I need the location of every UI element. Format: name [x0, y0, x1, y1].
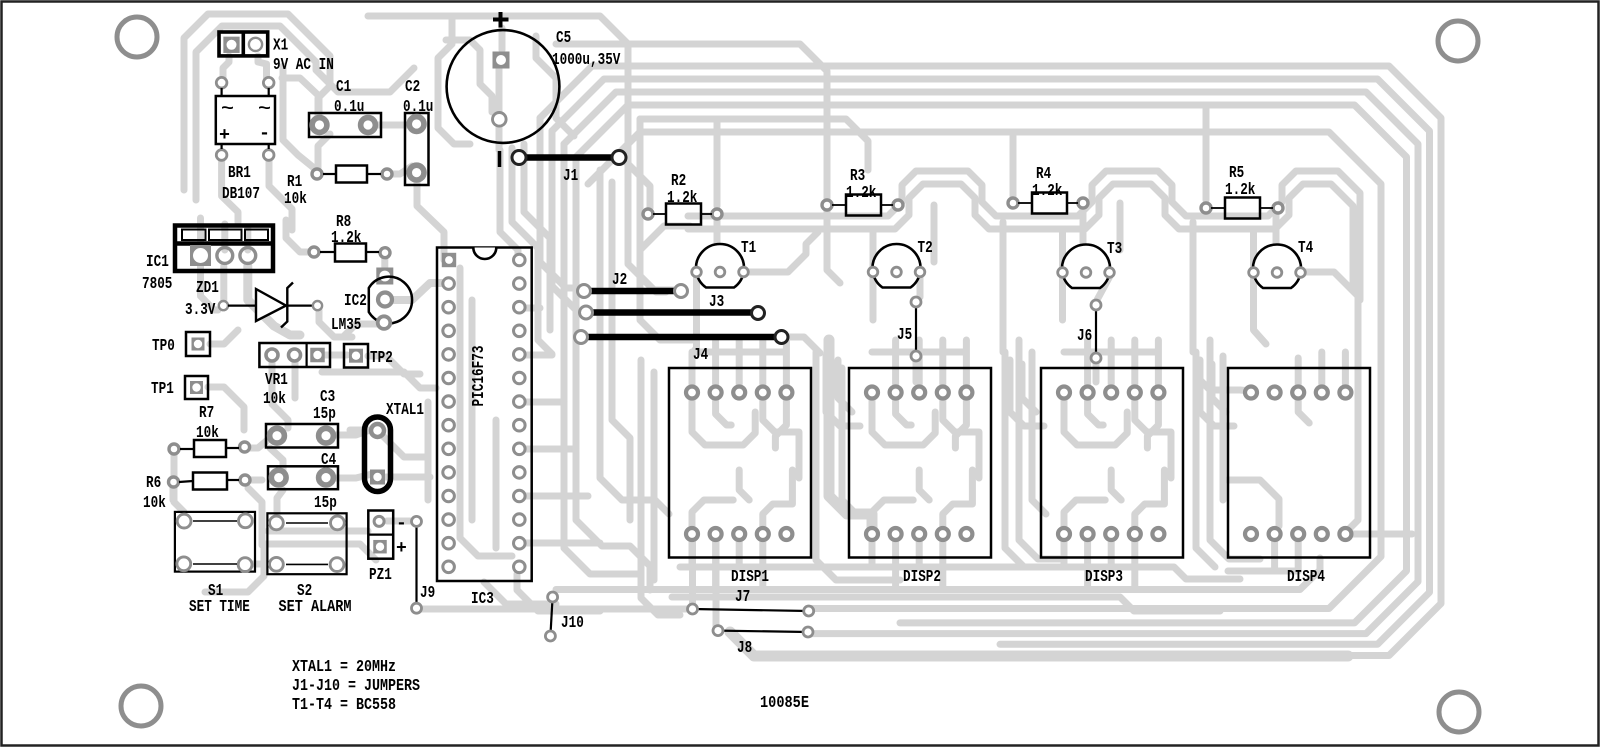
resistor R7	[169, 404, 250, 457]
svg-text:1000u,35V: 1000u,35V	[552, 51, 621, 70]
svg-text:J8: J8	[737, 639, 752, 658]
svg-text:0.1u: 0.1u	[334, 98, 364, 117]
pushbutton S1	[175, 512, 255, 617]
wire J5 stub	[913, 360, 920, 382]
svg-text:1.2k: 1.2k	[846, 184, 876, 203]
wire inside PIC b	[469, 300, 476, 520]
wire IC3 bottom run b	[517, 574, 600, 611]
wire band bus 1	[640, 226, 692, 340]
transistor T3	[1058, 240, 1123, 288]
wire S1 S2 link	[243, 561, 277, 568]
jumper J10	[545, 592, 583, 641]
svg-text:PIC16F73: PIC16F73	[470, 346, 489, 407]
wire left border vertical	[184, 14, 330, 190]
wire DISP1 pad2 to J8	[713, 540, 720, 626]
wire R8 right to PIC	[381, 256, 388, 268]
wire top run y44 to R3	[556, 44, 827, 198]
wire bundle DISP1-2 a	[816, 352, 900, 580]
resistor R5	[1201, 164, 1283, 219]
wire J9 bottom run	[421, 606, 688, 613]
wire inside C5 left	[446, 40, 492, 112]
wire R8 left lead	[286, 220, 314, 252]
svg-text:IC3: IC3	[471, 590, 494, 609]
jumper J3	[580, 293, 765, 320]
wire wide bottom power	[730, 632, 1348, 656]
jumper J2	[578, 271, 688, 298]
wire IC3 bottom run a	[484, 582, 556, 604]
wire drops from DISP1 bottom pads	[692, 541, 763, 590]
svg-text:ZD1: ZD1	[196, 279, 219, 298]
wire IC2 bottom lead	[344, 324, 378, 336]
svg-text:~: ~	[221, 100, 234, 119]
wire T2 pads	[873, 232, 920, 320]
wire IC1 pad3 down	[248, 266, 300, 335]
svg-text:DISP4: DISP4	[1287, 568, 1325, 587]
wire J1 to R2	[621, 157, 650, 208]
svg-text:IC1: IC1	[146, 253, 169, 272]
wire R4 left feed	[1010, 136, 1017, 196]
wire vertical to J2 right	[628, 186, 674, 290]
svg-text:1.2k: 1.2k	[331, 229, 361, 248]
wire XTAL bottom lead	[386, 474, 430, 481]
wire gap staircase 2	[1010, 360, 1044, 426]
svg-text:R6: R6	[146, 474, 161, 493]
svg-text:~: ~	[258, 100, 271, 119]
wire bundle DISP2-3 c	[1032, 352, 1046, 514]
wire behind S2 b	[262, 544, 376, 560]
svg-text:1.2k: 1.2k	[1225, 181, 1255, 200]
svg-text:J3: J3	[709, 293, 724, 312]
trimmer VR1	[259, 343, 330, 409]
wire inside DISP3 upper	[1064, 400, 1171, 478]
wire XTAL top lead	[350, 430, 428, 457]
wire R7 left down	[174, 454, 184, 512]
svg-text:T1-T4 = BC558: T1-T4 = BC558	[292, 696, 396, 715]
svg-text:J1-J10 = JUMPERS: J1-J10 = JUMPERS	[292, 677, 420, 696]
voltage regulator IC1	[142, 226, 273, 295]
wire gap feed 3-4	[1190, 222, 1197, 352]
wire C4 right to XTAL	[326, 474, 372, 478]
wire gap staircase 3	[1200, 360, 1234, 426]
wire J4 right link	[785, 337, 820, 353]
svg-text:J7: J7	[735, 588, 750, 607]
wire gap feed 2-3	[1000, 222, 1007, 352]
svg-text:1.2k: 1.2k	[1032, 182, 1062, 201]
transistor T2	[868, 239, 933, 288]
wire T1 left pad down	[692, 277, 697, 384]
wire inside DISP4	[1228, 400, 1412, 534]
wire top edge run y16	[368, 16, 628, 186]
wire loop 2 (top y79)	[552, 79, 1430, 644]
wire inside DISP2 lower	[872, 470, 972, 527]
wire C5 top pad lead	[499, 28, 502, 112]
svg-text:SET ALARM: SET ALARM	[279, 598, 352, 617]
crystal XTAL1	[365, 401, 425, 492]
wire R3 drop	[827, 205, 934, 283]
wire VR1 pad2 down	[292, 360, 299, 398]
wire inside PIC a	[460, 268, 512, 556]
svg-text:VR1: VR1	[265, 371, 288, 390]
svg-text:DB107: DB107	[222, 185, 260, 204]
wire bottom run a	[680, 567, 1240, 579]
piezo PZ1	[368, 511, 407, 586]
capacitor C2	[403, 78, 433, 185]
svg-text:T2: T2	[918, 239, 933, 258]
wire C1 to R1	[318, 134, 330, 168]
jumper J8	[713, 626, 813, 658]
wire IC1 pad2 down to ZD1	[220, 266, 227, 300]
wire TP2 to PIC b	[368, 356, 420, 374]
svg-text:J4: J4	[693, 346, 708, 365]
svg-text:T1: T1	[741, 239, 756, 258]
svg-text:DISP1: DISP1	[731, 568, 769, 587]
svg-text:BR1: BR1	[228, 164, 251, 183]
wire band meander upper	[688, 171, 1360, 300]
svg-text:10k: 10k	[143, 494, 166, 513]
svg-text:+: +	[396, 539, 407, 559]
wire VR1 to PIC a	[322, 372, 436, 388]
wire R2 right feed	[714, 122, 721, 206]
svg-text:-: -	[396, 514, 407, 534]
wire fan v6 long	[612, 182, 630, 520]
svg-text:TP1: TP1	[151, 380, 174, 399]
wire around C5 left	[438, 16, 470, 144]
wire drops into DISP3 top pads	[1064, 340, 1158, 384]
wire T1 right pad	[744, 232, 819, 272]
wire drops from DISP4 bottom pads	[1228, 541, 1298, 571]
wire between S1 S2 v	[248, 488, 262, 545]
wire C4 left up	[270, 448, 283, 472]
wire inside DISP1 lower	[692, 470, 792, 527]
wire fan v2 to J3	[552, 131, 586, 312]
jumper J9	[412, 516, 436, 613]
temperature sensor IC2	[331, 268, 412, 336]
wire BR1 left pad down	[222, 161, 238, 222]
resistor R3	[822, 167, 903, 216]
wire bundle DISP3-4 b	[1210, 340, 1260, 559]
wire X1 to BR1 left	[223, 56, 229, 78]
wire inside PIC c	[493, 420, 500, 548]
wire PIC right stubs	[517, 308, 600, 543]
capacitor C1	[309, 78, 381, 137]
wire bundle DISP2-3 b	[1019, 340, 1060, 559]
wire PZ1 to J9	[387, 518, 410, 525]
resistor R1	[284, 166, 392, 210]
wire loop 5 (top y132)	[588, 132, 1381, 609]
wire behind S1 c	[205, 545, 264, 592]
jumper J6	[1077, 300, 1101, 363]
svg-text:10k: 10k	[284, 190, 307, 209]
wire drops into DISP2 top pads	[872, 340, 966, 384]
test point TP0	[152, 332, 210, 356]
svg-text:IC2: IC2	[344, 292, 367, 311]
wire verticals through IC1	[201, 218, 248, 250]
wire T3 pads	[1063, 232, 1110, 320]
wire C3 right to XTAL	[326, 430, 370, 435]
svg-text:15p: 15p	[313, 405, 336, 424]
wire R7 right to C3	[245, 438, 270, 448]
wire drops into DISP1 top pads	[692, 340, 786, 384]
svg-text:TP2: TP2	[370, 349, 393, 368]
wire inside DISP2 upper	[872, 400, 979, 478]
test point TP2	[344, 344, 393, 368]
svg-text:+: +	[219, 126, 230, 146]
svg-text:0.1u: 0.1u	[403, 98, 433, 117]
wire inside DISP1 upper	[692, 400, 799, 478]
wire C5 v1 to PIC	[500, 150, 518, 258]
svg-text:J2: J2	[612, 271, 627, 290]
wire run y119	[640, 119, 868, 170]
legend T1-T4 = BC558	[292, 696, 396, 715]
svg-text:J5: J5	[897, 326, 912, 345]
mounting hole bottom-right	[1439, 692, 1479, 732]
wire DISP1 pad1 to J7	[689, 540, 696, 604]
wire bundle left of DISP1 b	[651, 372, 658, 580]
svg-text:C2: C2	[405, 78, 420, 97]
transistor T4	[1249, 239, 1314, 288]
wire drops from DISP2 bottom pads	[872, 541, 943, 590]
wire X1 to BR1 right	[258, 56, 267, 78]
wire R6 left down	[170, 486, 177, 500]
legend J1-J10 = JUMPERS	[292, 677, 420, 696]
svg-text:10k: 10k	[263, 390, 286, 409]
svg-text:DISP3: DISP3	[1085, 568, 1123, 587]
svg-text:J6: J6	[1077, 327, 1092, 346]
wire band meander lower	[688, 184, 1353, 290]
legend XTAL1 = 20MHz	[292, 658, 396, 677]
wire bundle DISP3-4 c	[1220, 356, 1227, 500]
wire fan v5 long	[600, 170, 669, 514]
display DISP2	[849, 368, 991, 587]
svg-text:T4: T4	[1298, 239, 1313, 258]
wire R5 left feed	[1203, 109, 1210, 200]
resistor R8	[309, 213, 390, 262]
svg-text:C1: C1	[336, 78, 351, 97]
svg-text:J9: J9	[420, 584, 435, 603]
wire R2 to T1	[717, 218, 720, 264]
mounting hole top-left	[117, 17, 157, 57]
wire inside DISP3 lower	[1064, 470, 1164, 527]
pushbutton S2	[267, 513, 351, 617]
test point TP1	[151, 376, 208, 399]
svg-text:1.2k: 1.2k	[667, 189, 697, 208]
svg-text:LM35: LM35	[331, 316, 361, 335]
svg-text:XTAL1 = 20MHz: XTAL1 = 20MHz	[292, 658, 396, 677]
svg-text:SET TIME: SET TIME	[189, 598, 250, 617]
zener diode ZD1	[185, 279, 322, 328]
svg-text:9V AC IN: 9V AC IN	[273, 56, 334, 75]
svg-text:T3: T3	[1107, 240, 1122, 259]
wire C2 bottom lead	[417, 178, 444, 260]
wire BR1 right pad down	[269, 160, 292, 230]
wire J6 stub	[1093, 362, 1100, 382]
wire C1 to C2	[368, 122, 410, 129]
jumper J4	[575, 331, 789, 366]
wire fan v3 long	[564, 144, 640, 574]
wire T4 pads	[1254, 232, 1359, 533]
svg-text:3.3V: 3.3V	[185, 301, 216, 320]
capacitor C3	[266, 388, 338, 448]
svg-text:R7: R7	[199, 404, 214, 423]
microcontroller IC3 PIC16F73	[437, 248, 532, 610]
display DISP3	[1041, 368, 1183, 587]
wire C5 v2	[512, 148, 552, 354]
capacitor C5	[447, 12, 621, 167]
svg-text:PZ1: PZ1	[369, 566, 392, 585]
mounting hole bottom-left	[121, 686, 161, 726]
wire drops from DISP3 bottom pads	[1064, 541, 1135, 590]
wire fan v1 to J2	[540, 118, 584, 291]
bridge rectifier BR1	[216, 77, 275, 204]
svg-text:C5: C5	[556, 29, 571, 48]
capacitor C4	[268, 451, 338, 513]
svg-text:X1: X1	[273, 37, 288, 56]
jumper J5	[897, 297, 921, 361]
wire R1 to C2	[387, 166, 412, 174]
wire bottom run b	[672, 597, 1220, 611]
svg-text:15p: 15p	[314, 494, 337, 513]
wire drops into DISP4 top pads	[1196, 352, 1345, 391]
svg-text:J10: J10	[561, 614, 584, 633]
wire bundle DISP1-2 wide	[829, 340, 872, 530]
wire IC1 pad1 down	[201, 266, 219, 310]
mounting hole top-right	[1438, 21, 1478, 61]
wire bundle DISP1-2 c	[842, 368, 856, 514]
wire bundle DISP3-4 a	[1196, 352, 1215, 567]
wire VR1 pad down	[272, 360, 288, 428]
wire R5 drop	[1273, 211, 1280, 244]
wire BR1 right vertical	[283, 66, 314, 168]
wire loop 1 (top y66)	[540, 66, 1441, 656]
wire fan v4 long	[576, 157, 650, 590]
resistor R4	[1008, 165, 1088, 214]
wire ZD1 right lead down	[319, 310, 352, 337]
wire TP0 lead	[210, 330, 238, 344]
wire left border vertical 2	[196, 26, 414, 200]
display DISP1	[669, 368, 811, 587]
wire vertical x640	[640, 119, 666, 292]
wire C1 left lead	[282, 78, 319, 120]
wire loop 4 (top y105)	[576, 105, 1407, 623]
wire R6 right lead	[245, 477, 262, 484]
svg-text:10085E: 10085E	[760, 694, 809, 713]
wire bottom run c	[556, 558, 1320, 590]
wire left of PIC vertical	[425, 402, 432, 500]
wire S2 pad up to C4	[277, 490, 283, 516]
wire behind S2 a	[268, 528, 368, 535]
label 10085E	[760, 694, 809, 713]
svg-text:-: -	[259, 124, 270, 144]
connector X1	[219, 32, 334, 75]
resistor R2	[643, 172, 722, 225]
wire VR1 to TP2	[324, 352, 347, 359]
wire bundle left of DISP1 a	[641, 360, 680, 615]
svg-text:TP0: TP0	[152, 337, 175, 356]
wire R4 drop	[1083, 203, 1120, 262]
jumper J1	[512, 151, 626, 187]
wire C5 neg pad lead	[496, 126, 503, 150]
resistor R6	[143, 473, 250, 514]
transistor T1	[692, 239, 757, 288]
wire C5 v3	[524, 144, 550, 330]
wire IC2 center lead	[391, 283, 442, 300]
svg-text:XTAL1: XTAL1	[386, 401, 424, 420]
wire bundle DISP2-3 a	[1005, 352, 1024, 567]
svg-text:J1: J1	[563, 167, 578, 186]
display DISP4	[1228, 368, 1370, 587]
wire TP1 lead	[208, 387, 244, 430]
svg-text:DISP2: DISP2	[903, 568, 941, 587]
jumper J7	[688, 588, 814, 616]
wire loop 3 (top y92)	[564, 92, 1418, 634]
wire across C5 right	[536, 36, 574, 136]
svg-text:7805: 7805	[142, 275, 172, 294]
wire gap staircase 1	[826, 356, 860, 426]
